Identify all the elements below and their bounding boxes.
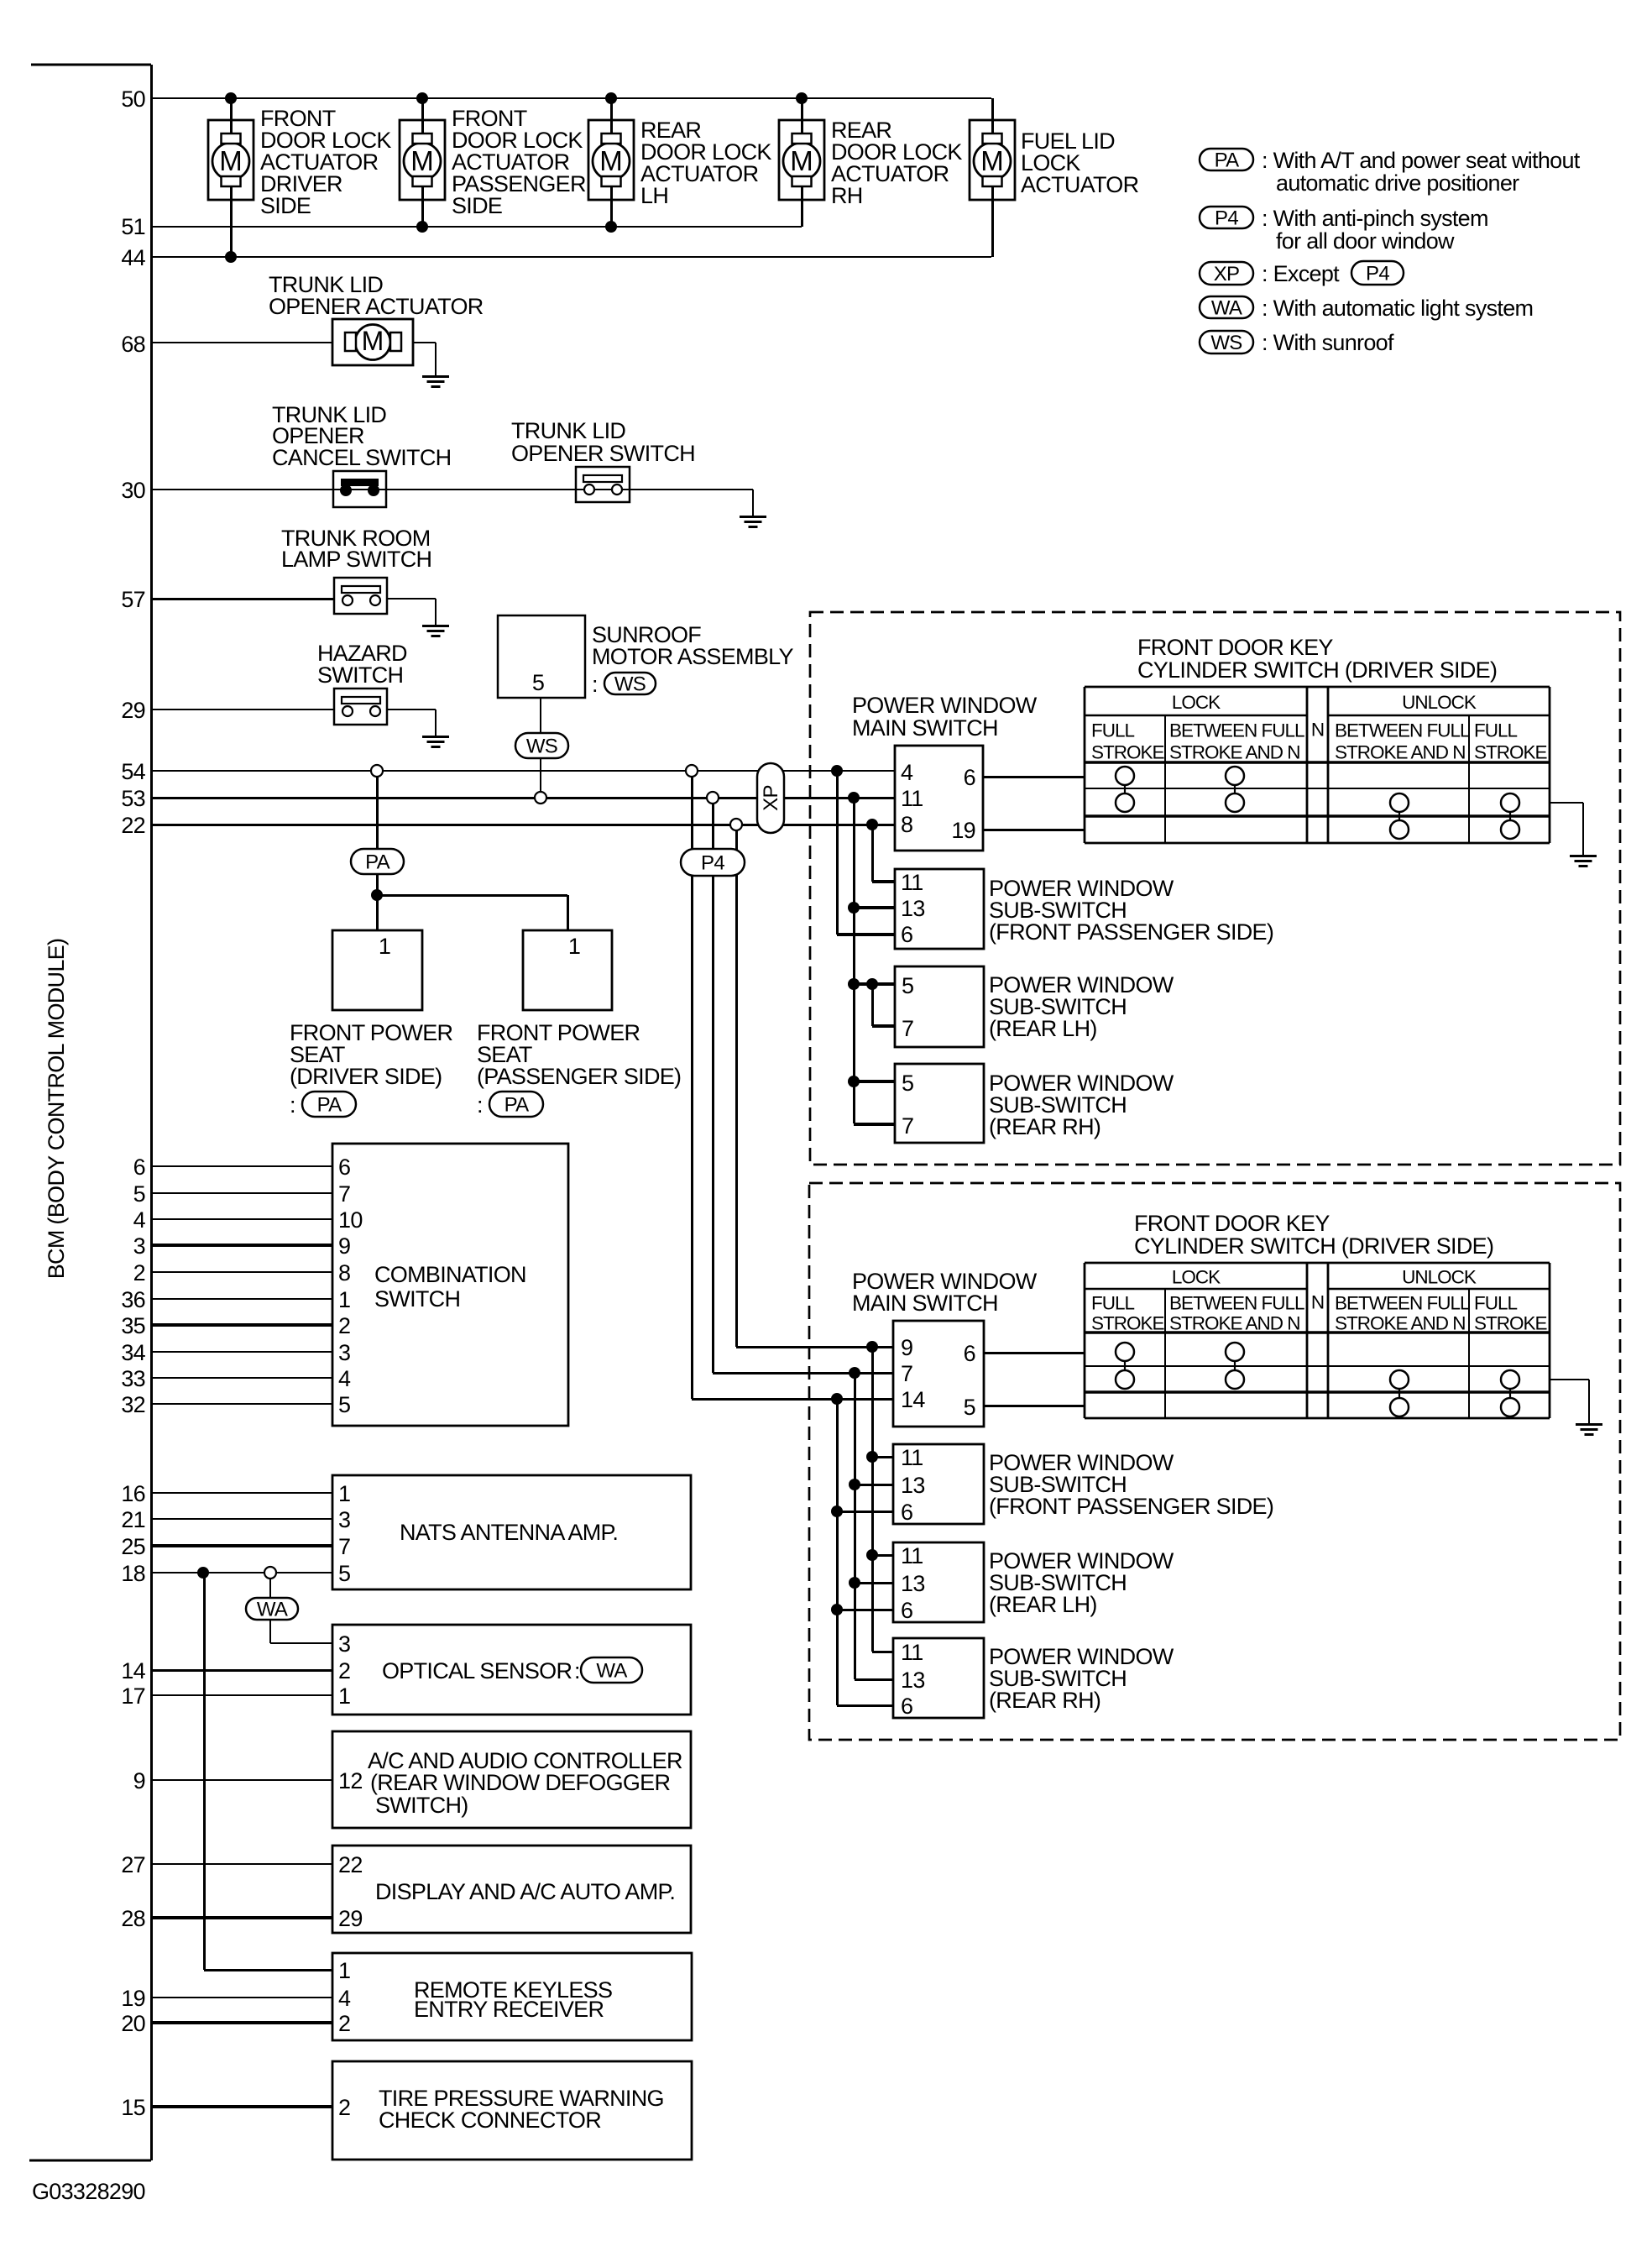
svg-text:4: 4 <box>338 1366 351 1391</box>
svg-text:13: 13 <box>901 896 925 921</box>
svg-text:11: 11 <box>901 1445 923 1470</box>
svg-text:CYLINDER SWITCH (DRIVER SIDE): CYLINDER SWITCH (DRIVER SIDE) <box>1137 657 1497 683</box>
svg-text:6: 6 <box>964 765 975 790</box>
svg-text:UNLOCK: UNLOCK <box>1402 692 1477 713</box>
svg-text:NATS ANTENNA AMP.: NATS ANTENNA AMP. <box>400 1520 618 1545</box>
svg-text:DISPLAY AND A/C AUTO AMP.: DISPLAY AND A/C AUTO AMP. <box>375 1879 675 1904</box>
svg-text:STROKE: STROKE <box>1474 741 1548 762</box>
svg-text:2: 2 <box>338 1313 350 1338</box>
svg-text:PA: PA <box>365 851 390 874</box>
svg-text:(REAR LH): (REAR LH) <box>989 1016 1097 1041</box>
svg-text:: With anti-pinch system: : With anti-pinch system <box>1262 206 1488 231</box>
svg-text:CANCEL SWITCH: CANCEL SWITCH <box>272 445 451 470</box>
svg-text:36: 36 <box>121 1287 145 1312</box>
svg-text:MAIN SWITCH: MAIN SWITCH <box>852 1291 998 1316</box>
svg-text:28: 28 <box>121 1906 145 1931</box>
svg-text::: : <box>477 1092 483 1118</box>
svg-text:OPENER ACTUATOR: OPENER ACTUATOR <box>269 294 484 319</box>
svg-text:4: 4 <box>133 1207 146 1233</box>
svg-text:G03328290: G03328290 <box>32 2179 145 2204</box>
svg-text:FULL: FULL <box>1474 1293 1518 1314</box>
svg-text:UNLOCK: UNLOCK <box>1402 1267 1477 1288</box>
svg-text:13: 13 <box>901 1668 925 1693</box>
svg-text:SWITCH): SWITCH) <box>375 1793 468 1818</box>
svg-text:P4: P4 <box>1366 263 1389 285</box>
svg-text:LOCK: LOCK <box>1172 692 1221 713</box>
svg-text:FULL: FULL <box>1474 720 1518 741</box>
svg-text:11: 11 <box>901 870 923 895</box>
svg-text:21: 21 <box>121 1507 145 1532</box>
svg-text:5: 5 <box>338 1392 350 1417</box>
svg-text::: : <box>592 672 598 697</box>
svg-text:9: 9 <box>133 1768 145 1793</box>
svg-text:LOCK: LOCK <box>1172 1267 1221 1288</box>
svg-text:PA: PA <box>504 1094 530 1117</box>
svg-text:(REAR RH): (REAR RH) <box>989 1688 1100 1713</box>
svg-text:4: 4 <box>901 760 913 785</box>
svg-text:13: 13 <box>901 1473 925 1498</box>
svg-text:5: 5 <box>964 1395 975 1420</box>
svg-text:LAMP SWITCH: LAMP SWITCH <box>281 547 431 572</box>
svg-text:(DRIVER SIDE): (DRIVER SIDE) <box>290 1064 442 1089</box>
svg-text:OPTICAL SENSOR: OPTICAL SENSOR <box>382 1658 572 1683</box>
svg-text:M: M <box>599 145 623 176</box>
svg-text:ACTUATOR: ACTUATOR <box>1021 172 1139 197</box>
svg-text:54: 54 <box>121 759 145 784</box>
svg-text:5: 5 <box>902 973 913 998</box>
svg-text:(PASSENGER SIDE): (PASSENGER SIDE) <box>477 1064 681 1089</box>
svg-text:WS: WS <box>526 736 557 758</box>
svg-text:5: 5 <box>902 1071 913 1096</box>
svg-text:(REAR RH): (REAR RH) <box>989 1114 1100 1139</box>
svg-text:SWITCH: SWITCH <box>374 1286 460 1312</box>
svg-text:30: 30 <box>121 478 145 503</box>
svg-text:M: M <box>790 145 813 176</box>
svg-text:14: 14 <box>121 1658 145 1683</box>
svg-text:LH: LH <box>640 183 668 208</box>
svg-text:5: 5 <box>133 1181 145 1207</box>
svg-text:1: 1 <box>379 934 390 959</box>
svg-text:19: 19 <box>121 1986 145 2011</box>
svg-text:32: 32 <box>121 1392 145 1417</box>
svg-text:STROKE AND N: STROKE AND N <box>1335 1312 1466 1333</box>
svg-text:XP: XP <box>1214 263 1240 285</box>
svg-text:(REAR LH): (REAR LH) <box>989 1592 1097 1617</box>
svg-text:2: 2 <box>133 1260 145 1285</box>
svg-text:20: 20 <box>121 2011 145 2036</box>
svg-text:53: 53 <box>121 786 145 811</box>
svg-text:6: 6 <box>338 1155 350 1180</box>
svg-text:MOTOR ASSEMBLY: MOTOR ASSEMBLY <box>592 644 793 669</box>
svg-text:P4: P4 <box>1215 207 1238 230</box>
svg-text:27: 27 <box>121 1852 145 1877</box>
svg-text:11: 11 <box>901 786 923 811</box>
svg-text:FULL: FULL <box>1091 720 1135 741</box>
svg-text:22: 22 <box>121 813 145 838</box>
svg-text:1: 1 <box>338 1287 350 1312</box>
svg-text:50: 50 <box>121 86 145 112</box>
svg-text:M: M <box>219 145 243 176</box>
svg-text:6: 6 <box>133 1155 145 1180</box>
svg-text:1: 1 <box>338 1481 350 1506</box>
svg-text:19: 19 <box>951 818 975 843</box>
svg-text:WS: WS <box>1210 332 1242 354</box>
svg-text:8: 8 <box>338 1260 350 1285</box>
svg-text:(REAR WINDOW DEFOGGER: (REAR WINDOW DEFOGGER <box>370 1770 670 1795</box>
svg-text:35: 35 <box>121 1313 145 1338</box>
svg-text:WS: WS <box>614 673 646 696</box>
svg-text:8: 8 <box>901 812 912 837</box>
svg-text:7: 7 <box>902 1113 913 1139</box>
svg-text:44: 44 <box>121 245 145 270</box>
svg-text:STROKE AND N: STROKE AND N <box>1169 741 1300 762</box>
svg-text:STROKE AND N: STROKE AND N <box>1335 741 1466 762</box>
svg-text:: With automatic light system: : With automatic light system <box>1262 296 1533 321</box>
svg-text:COMBINATION: COMBINATION <box>374 1262 526 1287</box>
svg-text:18: 18 <box>121 1561 145 1586</box>
svg-text:: With A/T and power seat with: : With A/T and power seat without <box>1262 148 1581 173</box>
svg-text:2: 2 <box>338 2011 350 2036</box>
svg-text:BETWEEN FULL: BETWEEN FULL <box>1335 720 1470 741</box>
svg-text:automatic drive positioner: automatic drive positioner <box>1276 170 1519 196</box>
svg-text:STROKE: STROKE <box>1474 1312 1548 1333</box>
svg-text:M: M <box>410 145 434 176</box>
svg-text:1: 1 <box>338 1683 350 1709</box>
svg-text:CHECK CONNECTOR: CHECK CONNECTOR <box>379 2108 601 2133</box>
svg-text:RH: RH <box>831 183 863 208</box>
svg-text:29: 29 <box>121 698 145 723</box>
svg-text:FULL: FULL <box>1091 1293 1135 1314</box>
svg-text:6: 6 <box>901 1694 912 1719</box>
svg-text:: With sunroof: : With sunroof <box>1262 330 1394 355</box>
svg-text:25: 25 <box>121 1534 145 1559</box>
svg-text:13: 13 <box>901 1571 925 1596</box>
svg-text:1: 1 <box>568 934 580 959</box>
svg-text:MAIN SWITCH: MAIN SWITCH <box>852 715 998 741</box>
svg-text:M: M <box>980 145 1004 176</box>
svg-text:2: 2 <box>338 1658 350 1683</box>
svg-text:N: N <box>1311 720 1324 741</box>
svg-text:1: 1 <box>338 1958 350 1983</box>
svg-text:4: 4 <box>338 1986 351 2011</box>
svg-text:9: 9 <box>901 1335 912 1360</box>
svg-text:12: 12 <box>338 1768 363 1793</box>
svg-text:BETWEEN FULL: BETWEEN FULL <box>1169 720 1304 741</box>
svg-text:5: 5 <box>532 670 544 695</box>
svg-text:7: 7 <box>338 1181 350 1207</box>
svg-text:M: M <box>362 326 384 356</box>
svg-text:OPENER SWITCH: OPENER SWITCH <box>511 441 695 466</box>
svg-text:CYLINDER SWITCH (DRIVER SIDE): CYLINDER SWITCH (DRIVER SIDE) <box>1134 1233 1493 1259</box>
svg-text:TRUNK LID: TRUNK LID <box>511 418 625 443</box>
svg-text:FRONT DOOR KEY: FRONT DOOR KEY <box>1137 635 1333 660</box>
svg-text:BCM (BODY CONTROL MODULE): BCM (BODY CONTROL MODULE) <box>44 939 69 1280</box>
svg-text:SIDE: SIDE <box>452 193 502 218</box>
svg-text:SIDE: SIDE <box>260 193 311 218</box>
svg-text:BETWEEN FULL: BETWEEN FULL <box>1169 1293 1304 1314</box>
svg-text:SWITCH: SWITCH <box>317 662 403 688</box>
svg-text:6: 6 <box>901 1500 912 1525</box>
svg-text::: : <box>574 1658 580 1683</box>
svg-text:3: 3 <box>338 1340 350 1365</box>
svg-text:N: N <box>1311 1292 1324 1313</box>
svg-text:14: 14 <box>901 1387 925 1412</box>
svg-text:XP: XP <box>760 785 782 811</box>
svg-text:WA: WA <box>257 1599 288 1621</box>
svg-text:7: 7 <box>901 1361 912 1386</box>
svg-text:WA: WA <box>596 1660 627 1683</box>
svg-text:3: 3 <box>133 1233 145 1259</box>
svg-text:STROKE: STROKE <box>1091 741 1165 762</box>
svg-text:for all door window: for all door window <box>1276 228 1455 254</box>
svg-text:6: 6 <box>901 922 912 947</box>
svg-text:BETWEEN FULL: BETWEEN FULL <box>1335 1293 1470 1314</box>
svg-text:POWER WINDOW: POWER WINDOW <box>852 693 1038 718</box>
svg-text:2: 2 <box>338 2095 350 2120</box>
svg-text:33: 33 <box>121 1366 145 1391</box>
svg-text:3: 3 <box>338 1631 350 1657</box>
svg-text:7: 7 <box>338 1534 350 1559</box>
svg-text:11: 11 <box>901 1640 923 1665</box>
svg-text:22: 22 <box>338 1852 363 1877</box>
svg-text:PA: PA <box>1215 149 1240 172</box>
svg-text:7: 7 <box>902 1016 913 1041</box>
svg-text:15: 15 <box>121 2095 145 2120</box>
svg-text::: : <box>290 1092 295 1118</box>
svg-text:51: 51 <box>121 214 145 239</box>
svg-text:ENTRY RECEIVER: ENTRY RECEIVER <box>414 1997 604 2022</box>
svg-text:P4: P4 <box>701 852 724 875</box>
svg-text:11: 11 <box>901 1543 923 1568</box>
svg-text:(FRONT PASSENGER SIDE): (FRONT PASSENGER SIDE) <box>989 1494 1273 1519</box>
svg-text:29: 29 <box>338 1906 363 1931</box>
svg-text:PA: PA <box>317 1094 342 1117</box>
svg-text:FRONT DOOR KEY: FRONT DOOR KEY <box>1134 1211 1330 1236</box>
svg-text:3: 3 <box>338 1507 350 1532</box>
svg-text:34: 34 <box>121 1340 145 1365</box>
svg-text:9: 9 <box>338 1233 350 1259</box>
svg-text:6: 6 <box>901 1598 912 1623</box>
svg-text:17: 17 <box>121 1683 145 1709</box>
svg-text:68: 68 <box>121 332 145 357</box>
svg-text:10: 10 <box>338 1207 363 1233</box>
svg-text:WA: WA <box>1211 297 1242 320</box>
svg-text:5: 5 <box>338 1561 350 1586</box>
svg-text:STROKE: STROKE <box>1091 1312 1165 1333</box>
svg-text:6: 6 <box>964 1341 975 1366</box>
svg-text:(FRONT PASSENGER SIDE): (FRONT PASSENGER SIDE) <box>989 919 1273 945</box>
svg-text:16: 16 <box>121 1481 145 1506</box>
svg-text:: Except: : Except <box>1262 261 1340 286</box>
svg-text:STROKE AND N: STROKE AND N <box>1169 1312 1300 1333</box>
svg-text:57: 57 <box>121 587 145 612</box>
